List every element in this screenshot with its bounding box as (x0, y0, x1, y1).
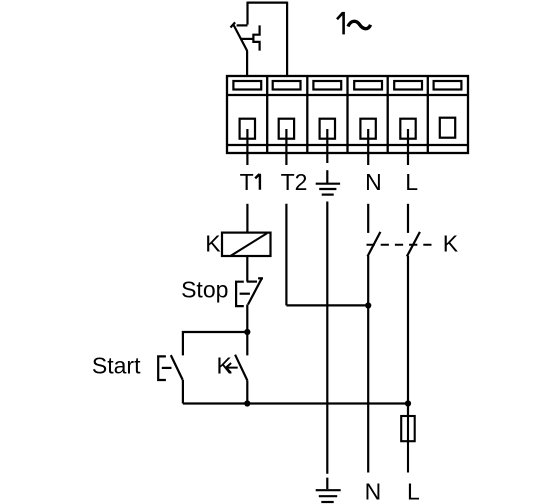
Stop button plunger (240, 293, 250, 295)
wire coil to Stop (246, 256, 248, 282)
tilde of 1~ (348, 21, 371, 28)
earth terminal symbol stub (326, 170, 328, 183)
wire earth down (326, 202, 328, 474)
earth terminal bar 3 (322, 194, 334, 196)
terminal square cell 6 (440, 118, 455, 138)
svg-text:Stop: Stop (181, 276, 228, 302)
Stop contact blade (248, 278, 262, 304)
contact K pole N blade (368, 232, 381, 257)
svg-text:T2: T2 (281, 169, 308, 195)
wire motor-loop top (T1 to T2 over winding) (248, 2, 288, 76)
fuse F1 (401, 416, 415, 441)
wire Stop to junction (246, 305, 248, 333)
wire T2 branch to N line (286, 304, 368, 306)
junction dot T2 branch to N (365, 302, 371, 308)
terminal block top separator (227, 94, 468, 96)
svg-text:L: L (405, 169, 418, 195)
wire blade to terminal block (246, 51, 248, 77)
terminal block divider 1 (266, 76, 268, 153)
svg-text:N: N (365, 479, 382, 504)
thermal element link (241, 38, 253, 40)
junction dot bottom rail to L (405, 400, 411, 406)
thermal contact fixed lead (237, 24, 248, 26)
thermal contact end tick (231, 22, 236, 27)
wire L to contact (407, 204, 409, 233)
wire K-aux bottom (246, 380, 248, 403)
terminal block outer body (227, 76, 468, 153)
wire L through fuse (407, 416, 409, 473)
thermal contact blade (234, 25, 248, 51)
Start button plunger (162, 367, 172, 369)
terminal block divider 3 (346, 76, 348, 153)
svg-text:T: T (240, 169, 254, 195)
wire stub earth (326, 129, 328, 163)
window cell 6 (434, 81, 462, 90)
coil diagonal (230, 233, 267, 256)
earth terminal bar 1 (316, 183, 340, 185)
wire stub N (367, 129, 369, 165)
terminal square T1 (240, 119, 255, 139)
terminal block divider 4 (387, 76, 389, 153)
wire Start bottom (182, 380, 184, 404)
svg-text:K: K (217, 353, 233, 379)
wire N below contact (367, 256, 369, 473)
window cell L (394, 81, 422, 90)
wire L below contact (407, 256, 409, 416)
contact K pole L blade (407, 232, 420, 257)
window cell earth (313, 81, 341, 90)
terminal block divider 5 (427, 76, 429, 153)
window cell N (354, 81, 382, 90)
mechanical link dashed (367, 244, 438, 246)
wire stub L (407, 129, 409, 165)
wire T1 to coil (246, 204, 248, 233)
terminal square T2 (279, 119, 294, 139)
window cell T1 (233, 81, 261, 90)
Start button bracket (158, 356, 166, 380)
ground bar 2 (319, 495, 337, 497)
label 1~ (337, 12, 344, 35)
wire stub T2 (285, 129, 287, 165)
ground symbol stub (326, 478, 328, 489)
ground bar 3 (321, 501, 333, 503)
svg-text:Start: Start (92, 352, 141, 378)
Start contact blade (171, 355, 183, 380)
earth terminal bar 2 (319, 188, 336, 190)
contactor coil K1 (222, 233, 271, 256)
window cell T2 (273, 81, 301, 90)
wire branch to Start (183, 332, 247, 355)
Stop button bracket (236, 282, 244, 306)
svg-text:K: K (443, 230, 459, 256)
ground bar 1 (316, 489, 341, 491)
K-aux arrow (226, 363, 238, 373)
Stop blade top serif (258, 277, 263, 279)
wire T2 down (285, 204, 287, 306)
terminal square N (360, 119, 375, 139)
junction dot Stop/Start (244, 329, 250, 335)
wire K-aux from junction (246, 332, 248, 355)
wire N to contact (367, 204, 369, 233)
svg-text:N: N (365, 169, 382, 195)
Stop contact fixed tick (247, 281, 257, 283)
junction dot K-aux bottom (244, 400, 250, 406)
terminal square L (400, 119, 415, 139)
svg-text:L: L (407, 479, 420, 504)
K auxiliary contact blade (235, 355, 247, 381)
thermal overload element (253, 25, 259, 50)
terminal block divider 2 (306, 76, 308, 153)
wire stub T1 (246, 129, 248, 165)
terminal square earth (320, 119, 335, 139)
svg-text:K: K (205, 231, 221, 257)
terminal block bottom strip (227, 144, 468, 146)
wire bottom rail (183, 402, 408, 404)
